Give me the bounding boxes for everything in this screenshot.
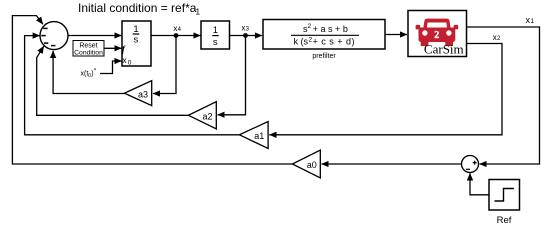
svg-text:s: s: [213, 37, 218, 48]
wire: integrator2 out to node x3 and prefilter: [230, 35, 263, 37]
title label: Initial condition = ref*a1: [78, 1, 200, 17]
wire: CarSim out1 x1 feedback to S2: [467, 27, 540, 164]
svg-text:Ref: Ref: [497, 215, 512, 226]
svg-text:k (s: k (s: [294, 37, 309, 47]
wire: reset condition to integrator: [104, 47, 122, 49]
svg-text:2: 2: [434, 30, 439, 41]
svg-text:0: 0: [128, 60, 132, 67]
svg-text:1: 1: [213, 25, 218, 36]
wire: CarSim out2 x2 feedback to gain a1: [269, 44, 502, 135]
svg-text:prefilter: prefilter: [312, 53, 336, 60]
wire: S1 output to integrator block: [68, 35, 122, 37]
svg-text:x(t: x(t: [81, 71, 89, 78]
svg-text:Reset: Reset: [79, 42, 97, 49]
svg-text:a1: a1: [254, 131, 264, 141]
wire: x(t0)* to x0 port: [100, 61, 122, 74]
gain a2: [188, 102, 216, 129]
sum junction S2: [462, 156, 479, 173]
wire: Ref to S2 bottom: [470, 173, 489, 195]
wire: gain a3 to S1 bottom: [53, 51, 124, 94]
integrator U1 (1/s with reset): [122, 21, 151, 67]
reset condition block: [73, 41, 104, 57]
svg-text:1: 1: [195, 7, 200, 17]
label x(t0)*: [81, 68, 97, 79]
svg-text:1: 1: [133, 24, 138, 35]
svg-text:+ c s + d): + c s + d): [313, 37, 356, 47]
svg-text:+ a s + b: + a s + b: [313, 24, 348, 34]
step source Ref: [489, 180, 520, 227]
node x3: [241, 24, 249, 38]
node label x2: [493, 33, 501, 42]
svg-text:a3: a3: [138, 90, 148, 100]
svg-text:CarSim: CarSim: [424, 42, 464, 57]
wire: gain a2 to S1 lower-left: [37, 46, 189, 115]
svg-text:a2: a2: [202, 112, 212, 122]
wire: node x3 down to gain a2: [218, 36, 246, 115]
wire: gain a1 to S1 left: [25, 36, 240, 135]
wire: S2 output to gain a0: [322, 163, 462, 165]
svg-text:x: x: [122, 55, 127, 65]
wire: integrator out to node x4 and integrator 2: [151, 35, 201, 37]
gain a1: [239, 122, 268, 149]
svg-text:Initial condition = ref*a: Initial condition = ref*a: [78, 1, 197, 15]
CarSim block U3: [408, 11, 467, 57]
svg-text:2: 2: [308, 23, 312, 30]
sum junction S1: [40, 22, 68, 50]
svg-text:a0: a0: [307, 160, 317, 170]
gain a3: [124, 81, 151, 106]
svg-text:1: 1: [531, 18, 535, 25]
gain a0: [292, 150, 320, 178]
integrator U2 (1/s): [201, 21, 230, 49]
wire: gain a0 to S1 top-left: [12, 16, 292, 164]
wire: node x4 down to gain a3: [153, 36, 176, 94]
node x4: [173, 24, 181, 38]
prefilter transfer function block: [263, 20, 385, 61]
wire: prefilter to CarSim: [385, 34, 407, 36]
car icon: [416, 19, 459, 47]
svg-text:s: s: [134, 34, 139, 45]
svg-text:Condition: Condition: [74, 50, 103, 57]
node label x1: [526, 15, 535, 25]
